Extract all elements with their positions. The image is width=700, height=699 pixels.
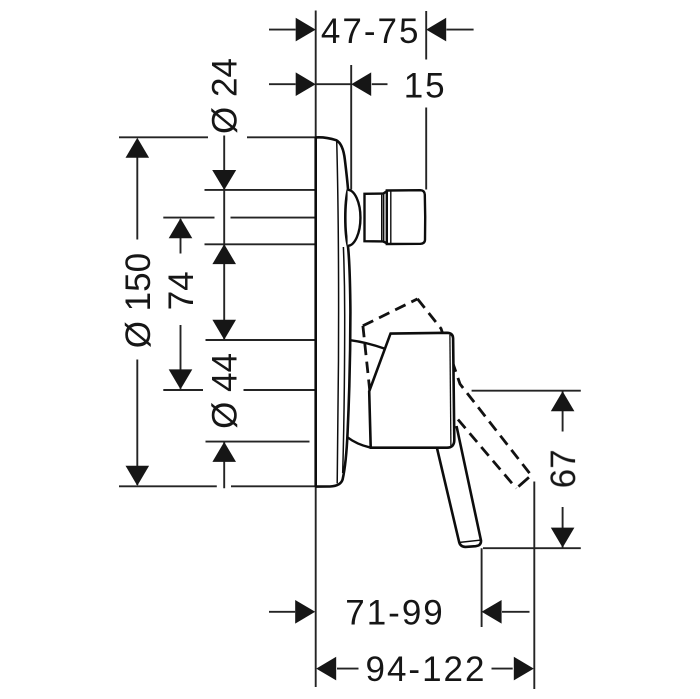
- svg-text:74: 74: [162, 271, 201, 310]
- svg-text:67: 67: [544, 449, 583, 488]
- svg-text:Ø 150: Ø 150: [119, 253, 158, 348]
- svg-text:15: 15: [404, 66, 447, 105]
- svg-text:47-75: 47-75: [321, 12, 421, 51]
- svg-text:Ø 44: Ø 44: [206, 353, 245, 429]
- svg-text:94-122: 94-122: [366, 650, 487, 689]
- svg-text:71-99: 71-99: [345, 594, 445, 633]
- svg-text:Ø 24: Ø 24: [206, 58, 245, 134]
